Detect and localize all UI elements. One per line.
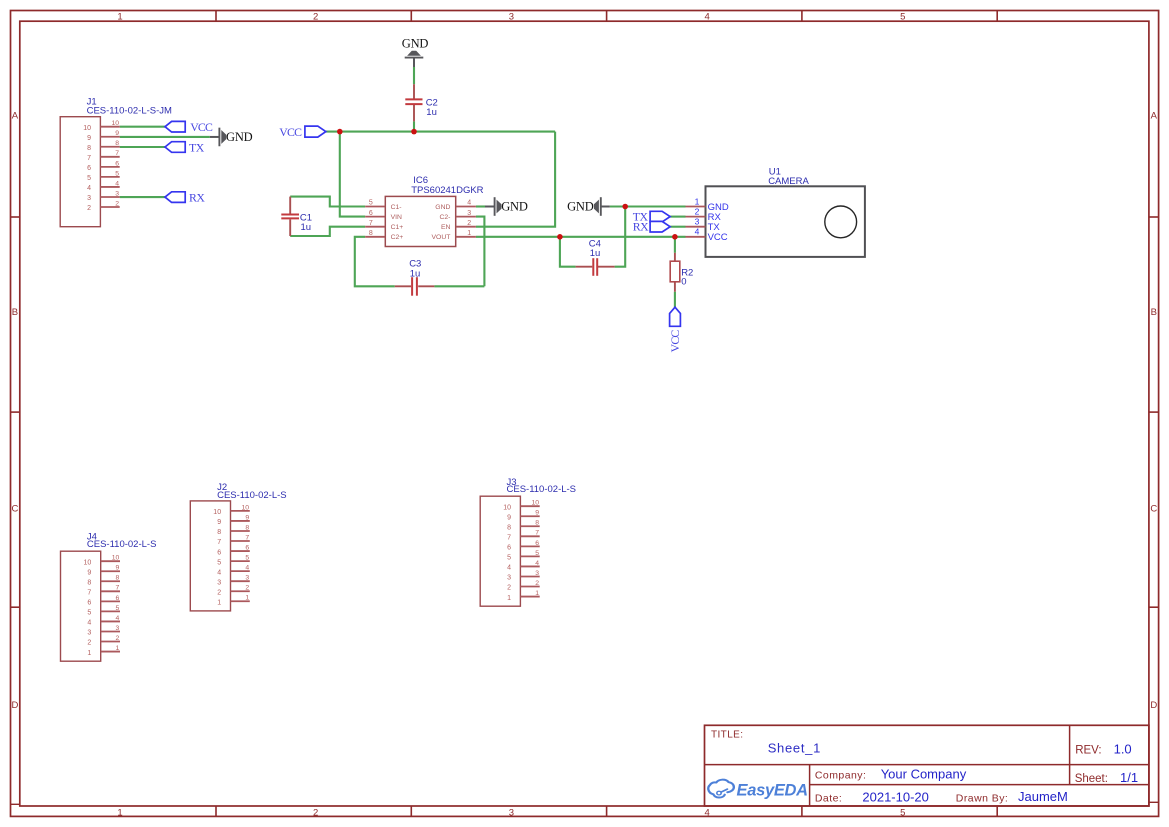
svg-text:1: 1 (117, 12, 122, 23)
svg-text:9: 9 (245, 514, 249, 521)
net flag VCC at J1 (165, 121, 185, 132)
IC IC6 body (385, 196, 455, 246)
svg-text:7: 7 (115, 150, 119, 157)
svg-text:EasyEDA: EasyEDA (737, 781, 808, 799)
svg-text:8: 8 (116, 575, 120, 582)
svg-text:C2+: C2+ (391, 234, 404, 241)
svg-text:7: 7 (245, 534, 249, 541)
svg-text:9: 9 (115, 130, 119, 137)
svg-text:REV:: REV: (1075, 745, 1101, 757)
svg-text:3: 3 (116, 625, 120, 632)
wire R2 bottom to VCC flag (674, 292, 676, 308)
wire C4 right to GND net (615, 207, 626, 267)
svg-text:5: 5 (507, 555, 511, 562)
J2 pin 3 (231, 580, 250, 582)
J2 pin 1 (231, 600, 250, 602)
svg-text:1: 1 (507, 595, 511, 602)
svg-text:VCC: VCC (279, 125, 302, 139)
svg-text:4: 4 (116, 615, 120, 622)
svg-text:C1+: C1+ (391, 224, 404, 231)
svg-text:9: 9 (116, 565, 120, 572)
resistor R2 body (670, 261, 680, 282)
svg-text:10: 10 (83, 125, 91, 132)
svg-text:3: 3 (87, 630, 91, 637)
svg-text:1: 1 (245, 595, 249, 602)
capacitor C3 (395, 285, 411, 287)
svg-text:VCC: VCC (668, 330, 682, 353)
svg-text:1.0: 1.0 (1114, 742, 1132, 757)
svg-text:5: 5 (245, 555, 249, 562)
J4 pin 4 (101, 620, 120, 622)
svg-text:1: 1 (695, 196, 700, 206)
J4 pin 9 (101, 570, 120, 572)
J3 pin 3 (520, 575, 539, 577)
capacitor C1 (289, 197, 291, 214)
wire IC6 pin4 to GND (476, 205, 485, 207)
svg-text:4: 4 (704, 807, 709, 818)
svg-text:3: 3 (87, 195, 91, 202)
svg-text:8: 8 (507, 524, 511, 531)
svg-text:8: 8 (535, 520, 539, 527)
junction C4 branch (557, 234, 563, 240)
svg-text:1: 1 (535, 590, 539, 597)
svg-text:TPS60241DGKR: TPS60241DGKR (411, 185, 483, 196)
svg-text:1u: 1u (426, 107, 437, 118)
capacitor C2 (413, 84, 415, 99)
title block divider horizontal (705, 764, 1149, 766)
svg-text:7: 7 (87, 590, 91, 597)
J3 pin 2 (520, 586, 539, 588)
svg-text:5: 5 (87, 175, 91, 182)
svg-text:4: 4 (695, 227, 700, 237)
svg-text:5: 5 (116, 605, 120, 612)
connector J3 CES-110-02-L-S box (480, 496, 520, 606)
svg-text:JaumeM: JaumeM (1018, 789, 1068, 804)
svg-text:5: 5 (87, 610, 91, 617)
svg-text:EN: EN (441, 224, 451, 231)
wire IC6 pin8 to C3 left (355, 237, 395, 286)
J2 pin 2 (231, 590, 250, 592)
svg-text:2: 2 (695, 206, 700, 216)
J3 pin 10 (520, 505, 539, 507)
svg-text:3: 3 (695, 217, 700, 227)
J4 pin 8 (101, 580, 120, 582)
wire C1 top to pin5 (290, 197, 365, 207)
svg-text:C2-: C2- (439, 214, 450, 221)
svg-text:B: B (1151, 307, 1157, 318)
svg-text:9: 9 (507, 514, 511, 521)
J3 pin 9 (520, 515, 539, 517)
J3 pin 5 (520, 555, 539, 557)
svg-text:3: 3 (115, 190, 119, 197)
J2 pin 4 (231, 570, 250, 572)
svg-text:3: 3 (509, 807, 514, 818)
svg-text:3: 3 (467, 210, 471, 217)
J3 pin 8 (520, 525, 539, 527)
J2 pin 6 (231, 550, 250, 552)
svg-text:9: 9 (217, 519, 221, 526)
J3 pin 1 (520, 596, 539, 598)
camera pin 1 GND (686, 206, 706, 208)
svg-text:4: 4 (217, 569, 221, 576)
IC6 pin 6 VIN (365, 216, 385, 218)
J1 pin 2 (100, 206, 119, 208)
IC6 pin 8 C2+ (365, 236, 385, 238)
J1 pin 10 (100, 126, 119, 128)
IC6 pin 5 C1- (365, 206, 385, 208)
svg-text:6: 6 (87, 165, 91, 172)
svg-text:7: 7 (217, 539, 221, 546)
row ticks right (1149, 216, 1159, 218)
svg-text:TITLE:: TITLE: (711, 730, 743, 741)
svg-text:6: 6 (116, 595, 120, 602)
net flag VCC below R2 (670, 307, 681, 326)
J2 pin 9 (231, 520, 250, 522)
J3 pin 7 (520, 535, 539, 537)
svg-text:Date:: Date: (815, 792, 842, 804)
svg-text:2: 2 (217, 589, 221, 596)
J2 pin 5 (231, 560, 250, 562)
svg-text:3: 3 (507, 575, 511, 582)
svg-text:2021-10-20: 2021-10-20 (862, 789, 929, 804)
IC6 pin 2 EN (456, 226, 476, 228)
svg-text:10: 10 (84, 559, 92, 566)
svg-text:9: 9 (87, 135, 91, 142)
svg-text:A: A (1151, 111, 1158, 122)
junction C2 on rail (411, 129, 417, 135)
svg-text:7: 7 (535, 530, 539, 537)
svg-text:0: 0 (681, 277, 686, 288)
EasyEDA logo cloud (708, 780, 734, 798)
svg-text:8: 8 (245, 524, 249, 531)
camera U1 body (706, 186, 865, 257)
svg-text:5: 5 (900, 12, 905, 23)
svg-text:4: 4 (245, 565, 249, 572)
wire VCC riser to VIN (340, 132, 365, 217)
svg-text:GND: GND (567, 200, 594, 214)
svg-text:C1-: C1- (391, 204, 402, 211)
J4 pin 7 (101, 590, 120, 592)
wire R2 top (674, 237, 676, 253)
svg-text:5: 5 (900, 807, 905, 818)
wire C2 bottom to rail (413, 121, 415, 131)
title block outer box (705, 725, 1149, 806)
wire VCC rail (326, 131, 555, 133)
svg-text:3: 3 (245, 575, 249, 582)
svg-text:1u: 1u (410, 269, 421, 280)
svg-text:6: 6 (87, 600, 91, 607)
svg-text:7: 7 (369, 220, 373, 227)
svg-text:VOUT: VOUT (432, 234, 451, 241)
svg-text:5: 5 (115, 170, 119, 177)
svg-text:2: 2 (245, 585, 249, 592)
column ticks top (215, 11, 217, 22)
svg-text:2: 2 (507, 585, 511, 592)
wire TX flag to camera pin2 (670, 216, 685, 218)
svg-text:GND: GND (501, 200, 528, 214)
svg-text:RX: RX (189, 191, 205, 205)
svg-text:2: 2 (116, 635, 120, 642)
svg-text:6: 6 (507, 545, 511, 552)
ground symbol at IC6 pin4 (485, 206, 495, 208)
camera pin 4 VCC (686, 236, 706, 238)
svg-text:9: 9 (87, 569, 91, 576)
J1 pin 8 (100, 146, 119, 148)
svg-text:4: 4 (467, 200, 471, 207)
title block divider vertical logo cell (809, 765, 811, 806)
title block divider vertical right column (1069, 725, 1071, 784)
svg-text:1u: 1u (301, 222, 312, 233)
J1 pin 6 (100, 166, 119, 168)
svg-text:1u: 1u (590, 248, 601, 259)
svg-text:3: 3 (217, 579, 221, 586)
wire RX flag to camera pin3 (670, 226, 685, 228)
resistor R2 leads (674, 253, 676, 261)
svg-text:4: 4 (704, 12, 709, 23)
svg-text:6: 6 (245, 544, 249, 551)
svg-text:Your Company: Your Company (881, 766, 967, 781)
IC6 pin 1 VOUT (456, 236, 476, 238)
wire GND to camera pin1 (610, 205, 686, 207)
svg-text:1: 1 (217, 599, 221, 606)
J4 pin 10 (101, 560, 120, 562)
svg-text:4: 4 (507, 565, 511, 572)
J2 pin 8 (231, 530, 250, 532)
svg-text:8: 8 (369, 230, 373, 237)
wire C3 right segment (434, 285, 484, 287)
J4 pin 1 (101, 651, 120, 653)
J1 pin 3 (100, 196, 119, 198)
connector J4 CES-110-02-L-S box (61, 551, 101, 661)
svg-text:2: 2 (87, 640, 91, 647)
svg-text:Company:: Company: (815, 769, 866, 781)
J3 pin 4 (520, 565, 539, 567)
junction GND net (622, 204, 628, 210)
svg-text:CES-110-02-L-S: CES-110-02-L-S (217, 490, 287, 501)
wire J1 pin3 to RX flag (120, 196, 165, 198)
svg-text:A: A (12, 111, 19, 122)
svg-text:IC6: IC6 (413, 175, 428, 186)
svg-text:10: 10 (111, 120, 119, 127)
svg-text:2: 2 (467, 220, 471, 227)
svg-text:2: 2 (87, 205, 91, 212)
svg-text:D: D (11, 700, 18, 711)
connector J1 CES-110-02-L-S box (60, 117, 100, 227)
svg-text:VCC: VCC (708, 232, 728, 243)
net flag TX at J1 (165, 142, 185, 153)
ground symbol above C2 (413, 58, 415, 67)
svg-text:2: 2 (313, 807, 318, 818)
camera pin 3 TX (686, 226, 706, 228)
svg-text:7: 7 (87, 155, 91, 162)
svg-text:6: 6 (217, 549, 221, 556)
J2 pin 7 (231, 540, 250, 542)
J1 pin 9 (100, 136, 119, 138)
svg-text:CES-110-02-L-S: CES-110-02-L-S (507, 484, 577, 495)
wire IC6 pin2 EN to VCC rail (476, 132, 555, 227)
svg-text:10: 10 (531, 500, 539, 507)
svg-text:8: 8 (115, 140, 119, 147)
net flag VCC on rail (305, 126, 326, 137)
wire C4 left branch (560, 237, 576, 267)
svg-text:3: 3 (509, 12, 514, 23)
wire J1 pin10 to VCC flag (120, 126, 165, 128)
ground symbol at camera GND net (601, 206, 610, 208)
camera pin 2 RX (686, 216, 706, 218)
net flag RX at J1 (165, 192, 185, 203)
svg-text:C: C (11, 504, 18, 515)
svg-text:GND: GND (402, 37, 429, 51)
J3 pin 6 (520, 545, 539, 547)
margin tick bottom-left (11, 803, 20, 805)
svg-text:7: 7 (116, 585, 120, 592)
svg-text:VCC: VCC (190, 120, 213, 134)
J4 pin 5 (101, 610, 120, 612)
junction VCC riser (337, 129, 343, 135)
column ticks bottom (215, 806, 217, 816)
margin tick bottom-right (1149, 801, 1159, 803)
svg-text:3: 3 (535, 570, 539, 577)
IC6 pin 7 C1+ (365, 226, 385, 228)
camera U1 lens circle (825, 206, 857, 238)
svg-text:VIN: VIN (391, 214, 402, 221)
wire VOUT net to camera VCC (476, 236, 686, 238)
svg-text:GND: GND (435, 204, 450, 211)
svg-text:4: 4 (115, 180, 119, 187)
svg-text:8: 8 (87, 145, 91, 152)
J4 pin 2 (101, 641, 120, 643)
svg-text:10: 10 (503, 504, 511, 511)
svg-text:7: 7 (507, 535, 511, 542)
svg-text:6: 6 (115, 160, 119, 167)
svg-text:4: 4 (87, 620, 91, 627)
wire C1 bottom to pin7 (290, 227, 365, 236)
wire J1 pin8 to TX flag (120, 146, 165, 148)
svg-text:1/1: 1/1 (1120, 770, 1138, 785)
svg-text:2: 2 (115, 200, 119, 207)
net flag TX to camera (650, 211, 670, 222)
wire C2 top to GND (413, 67, 415, 84)
IC6 pin 3 C2- (456, 216, 476, 218)
svg-text:2: 2 (313, 12, 318, 23)
svg-text:8: 8 (87, 579, 91, 586)
svg-text:8: 8 (217, 529, 221, 536)
svg-text:D: D (1150, 700, 1157, 711)
net flag RX to camera (650, 221, 670, 232)
svg-text:10: 10 (112, 555, 120, 562)
svg-text:Sheet:: Sheet: (1075, 773, 1108, 785)
J1 pin 7 (100, 156, 119, 158)
svg-text:2: 2 (535, 580, 539, 587)
J1 pin 5 (100, 176, 119, 178)
svg-text:9: 9 (535, 510, 539, 517)
wire J1 pin9 to GND (120, 136, 210, 138)
svg-text:Sheet_1: Sheet_1 (768, 740, 821, 755)
title block divider company/date (810, 784, 1149, 786)
svg-text:GND: GND (226, 130, 253, 144)
svg-text:RX: RX (633, 220, 649, 234)
svg-text:6: 6 (535, 540, 539, 547)
svg-text:Drawn By:: Drawn By: (956, 792, 1008, 804)
svg-text:5: 5 (369, 200, 373, 207)
IC6 pin 4 GND (456, 206, 476, 208)
svg-text:4: 4 (535, 560, 539, 567)
svg-text:10: 10 (213, 509, 221, 516)
svg-text:C: C (1150, 504, 1157, 515)
svg-text:1: 1 (467, 230, 471, 237)
svg-text:CES-110-02-L-S-JM: CES-110-02-L-S-JM (87, 105, 172, 116)
svg-text:6: 6 (369, 210, 373, 217)
svg-text:5: 5 (535, 550, 539, 557)
wire IC6 pin3 to C3 right (476, 217, 485, 287)
svg-text:B: B (12, 307, 18, 318)
J1 pin 4 (100, 186, 119, 188)
svg-text:5: 5 (217, 559, 221, 566)
svg-text:TX: TX (189, 141, 205, 155)
svg-text:1: 1 (87, 650, 91, 657)
connector J2 CES-110-02-L-S box (190, 501, 230, 611)
row ticks left (11, 216, 21, 218)
J4 pin 3 (101, 630, 120, 632)
J4 pin 6 (101, 600, 120, 602)
svg-text:1: 1 (116, 645, 120, 652)
J2 pin 10 (231, 510, 250, 512)
capacitor C4 (576, 266, 593, 268)
junction R2 branch (672, 234, 678, 240)
svg-text:1: 1 (117, 807, 122, 818)
svg-text:CES-110-02-L-S: CES-110-02-L-S (87, 539, 157, 550)
svg-text:10: 10 (242, 504, 250, 511)
ground symbol at J1 pin9 (210, 136, 220, 138)
svg-text:4: 4 (87, 185, 91, 192)
